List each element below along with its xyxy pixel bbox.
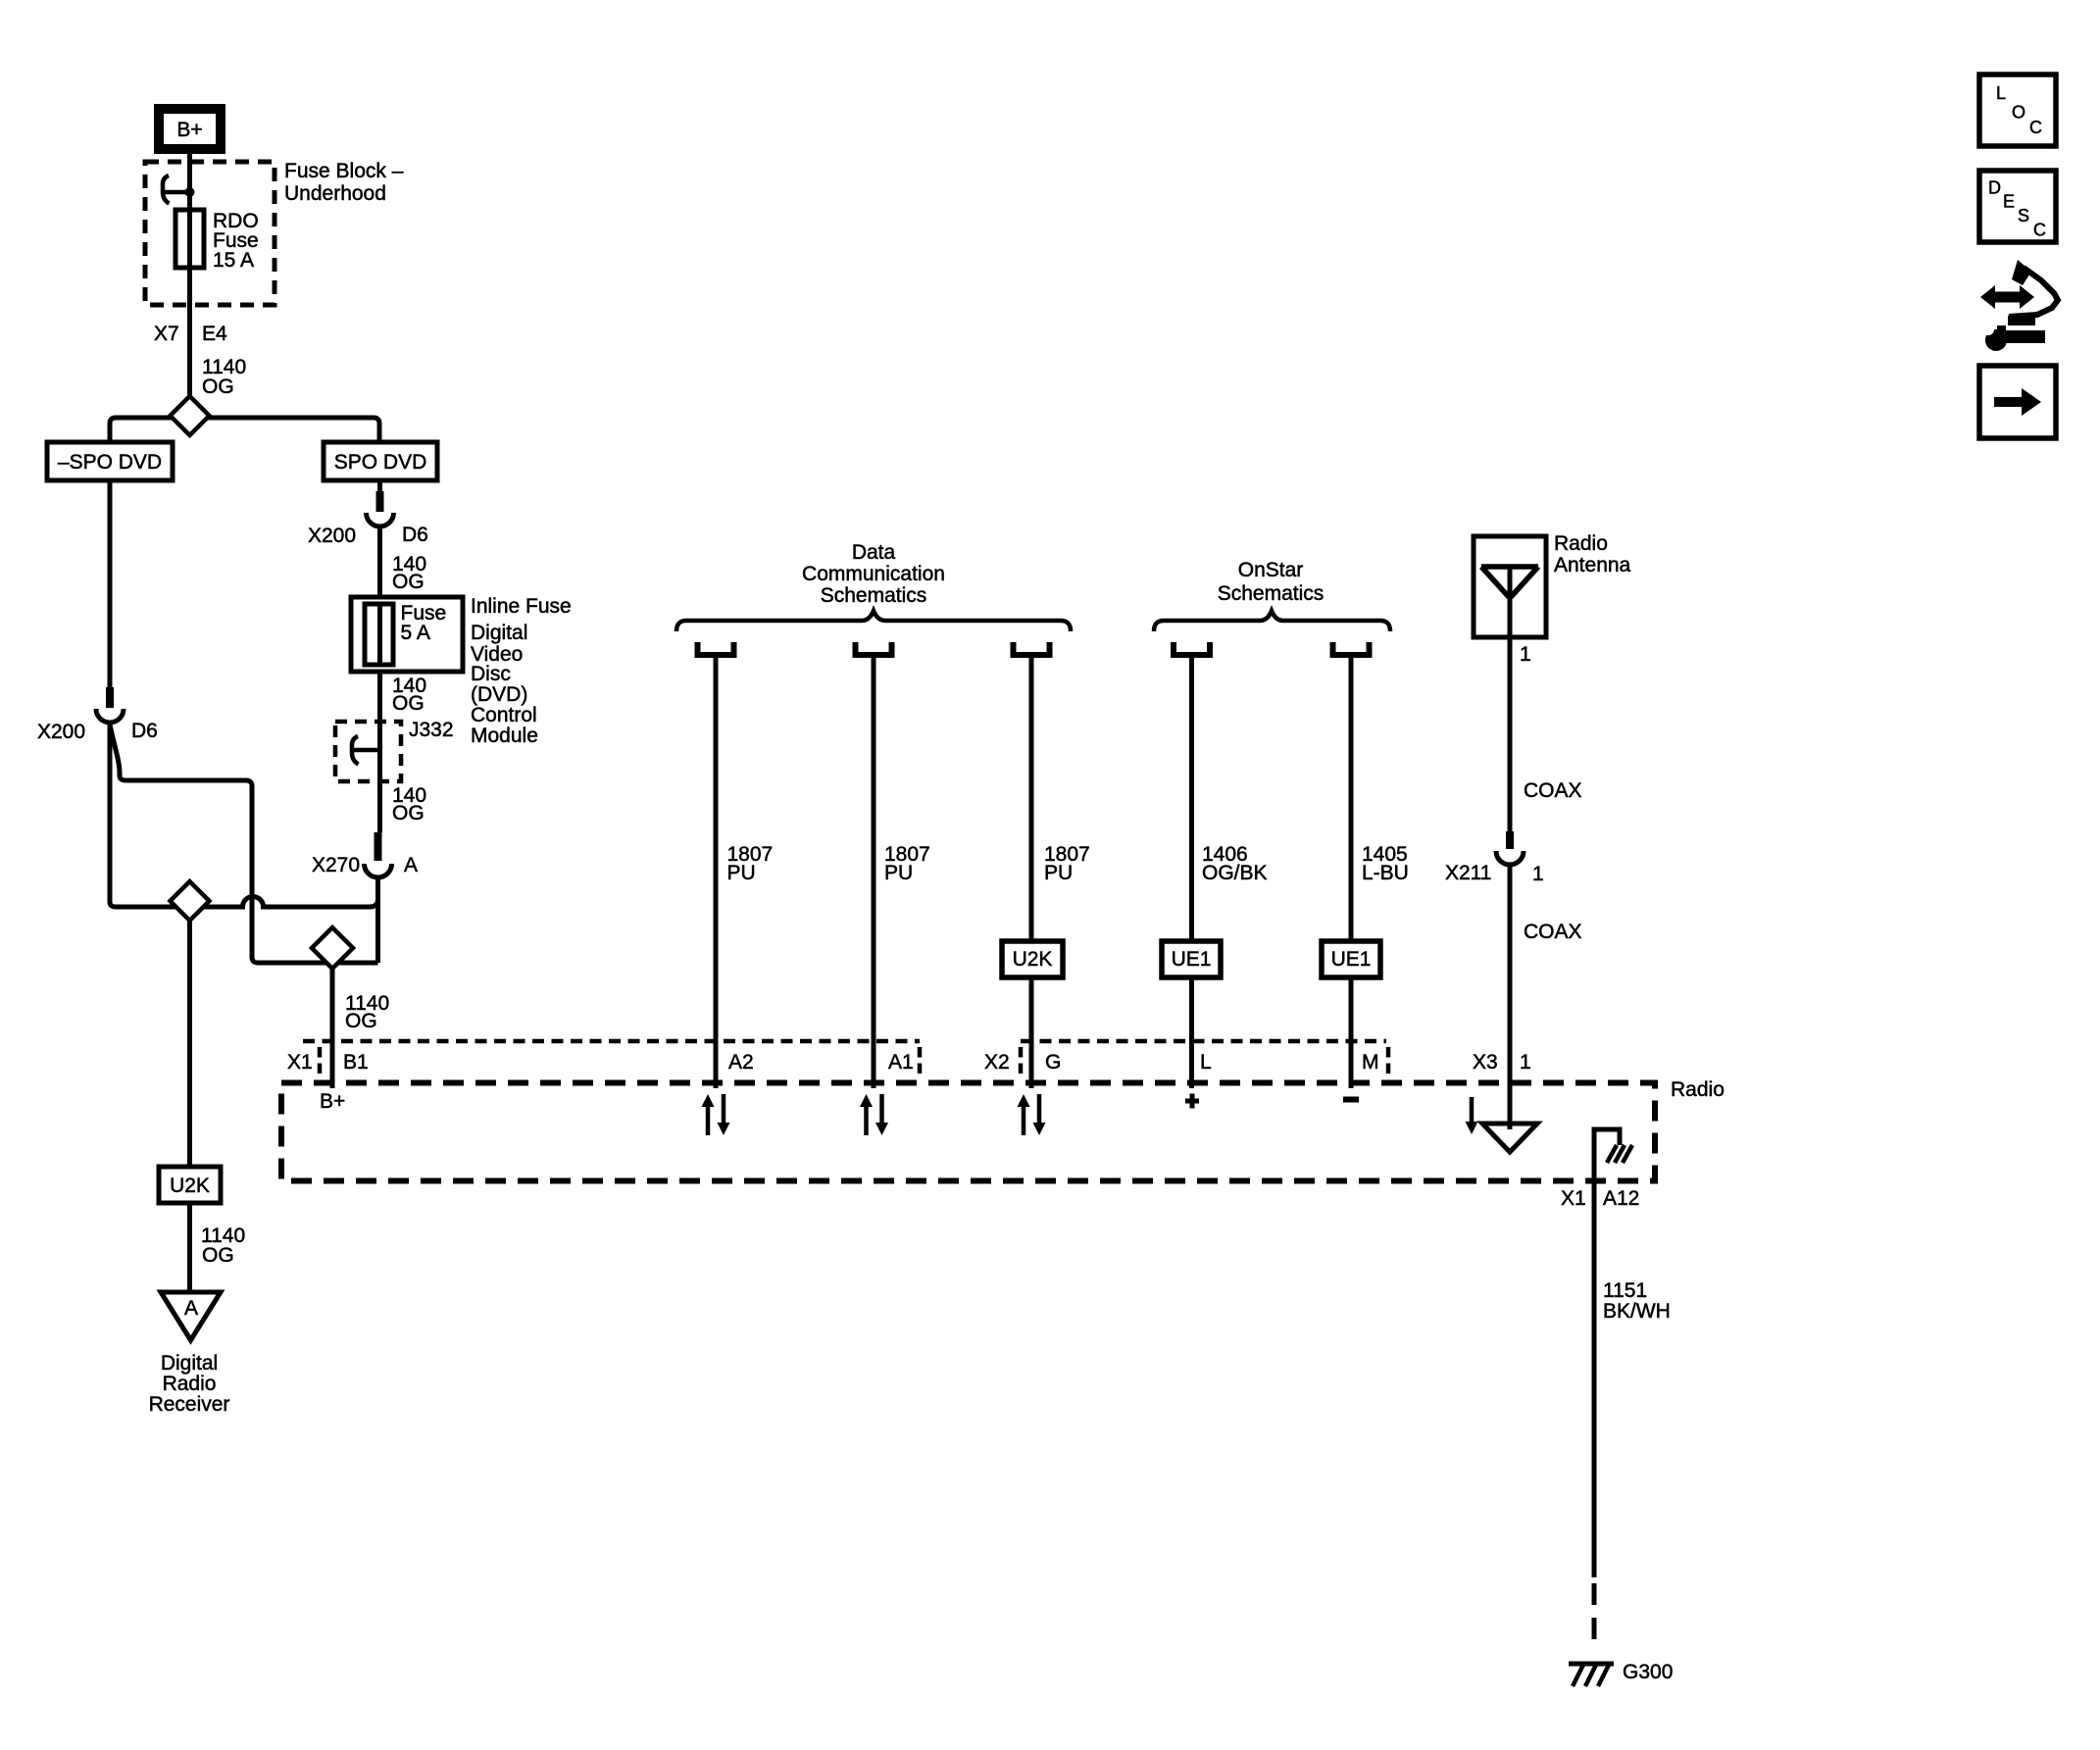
- svg-text:A12: A12: [1603, 1187, 1639, 1210]
- svg-text:OnStar: OnStar: [1238, 559, 1304, 581]
- svg-text:J332: J332: [409, 719, 454, 741]
- svg-text:D6: D6: [131, 720, 158, 742]
- svg-text:X200: X200: [37, 721, 85, 743]
- svg-text:L: L: [1200, 1051, 1212, 1074]
- svg-text:D6: D6: [402, 524, 428, 546]
- svg-text:X1: X1: [287, 1051, 313, 1074]
- svg-text:Digital: Digital: [161, 1352, 218, 1375]
- svg-text:A2: A2: [728, 1051, 754, 1074]
- svg-text:X7: X7: [154, 323, 179, 345]
- svg-text:Data: Data: [852, 541, 896, 564]
- svg-text:Radio: Radio: [1671, 1078, 1725, 1101]
- svg-text:C: C: [2029, 118, 2042, 137]
- svg-text:COAX: COAX: [1524, 779, 1582, 802]
- svg-text:OG: OG: [202, 1244, 234, 1267]
- svg-text:UE1: UE1: [1172, 948, 1212, 971]
- svg-text:Receiver: Receiver: [149, 1393, 230, 1416]
- svg-text:G: G: [1045, 1051, 1061, 1074]
- svg-text:Fuse Block –: Fuse Block –: [284, 160, 404, 182]
- svg-text:15 A: 15 A: [213, 249, 254, 272]
- svg-text:OG: OG: [392, 802, 425, 825]
- svg-text:Radio: Radio: [1554, 532, 1608, 555]
- svg-text:A: A: [184, 1297, 198, 1320]
- svg-text:U2K: U2K: [170, 1175, 210, 1197]
- svg-text:E: E: [2003, 192, 2015, 212]
- svg-text:PU: PU: [1044, 862, 1073, 884]
- svg-text:X211: X211: [1445, 862, 1492, 884]
- svg-text:OG: OG: [345, 1010, 377, 1032]
- svg-text:OG: OG: [392, 571, 425, 593]
- svg-text:B1: B1: [343, 1051, 369, 1074]
- svg-text:OG: OG: [202, 375, 234, 398]
- svg-text:D: D: [1988, 178, 2001, 198]
- svg-text:Inline Fuse: Inline Fuse: [471, 595, 572, 618]
- svg-text:X2: X2: [984, 1051, 1010, 1074]
- svg-text:O: O: [2012, 103, 2025, 123]
- svg-text:SPO DVD: SPO DVD: [334, 451, 427, 474]
- svg-text:Underhood: Underhood: [284, 182, 386, 205]
- svg-text:Disc: Disc: [471, 663, 511, 685]
- svg-text:OG: OG: [392, 692, 425, 715]
- svg-text:E4: E4: [202, 323, 227, 345]
- svg-text:PU: PU: [727, 862, 756, 884]
- svg-text:A1: A1: [888, 1051, 914, 1074]
- svg-text:Control: Control: [471, 704, 537, 726]
- svg-text:X200: X200: [308, 525, 356, 547]
- svg-text:L-BU: L-BU: [1362, 862, 1409, 884]
- svg-text:B+: B+: [176, 119, 202, 141]
- svg-text:U2K: U2K: [1013, 948, 1053, 971]
- svg-text:S: S: [2018, 206, 2029, 225]
- svg-text:Communication: Communication: [802, 563, 945, 585]
- svg-text:(DVD): (DVD): [471, 683, 527, 706]
- svg-text:Radio: Radio: [163, 1373, 217, 1395]
- svg-text:–SPO DVD: –SPO DVD: [58, 451, 162, 474]
- svg-text:BK/WH: BK/WH: [1603, 1300, 1671, 1323]
- svg-text:1151: 1151: [1603, 1279, 1647, 1302]
- svg-text:L: L: [1996, 83, 2006, 103]
- svg-text:Digital: Digital: [471, 622, 527, 644]
- svg-text:Schematics: Schematics: [821, 584, 927, 607]
- svg-text:OG/BK: OG/BK: [1202, 862, 1268, 884]
- svg-text:COAX: COAX: [1524, 921, 1582, 943]
- svg-text:X3: X3: [1473, 1051, 1498, 1074]
- svg-text:PU: PU: [884, 862, 913, 884]
- svg-text:A: A: [404, 854, 418, 876]
- svg-text:C: C: [2033, 221, 2046, 240]
- svg-text:G300: G300: [1623, 1661, 1673, 1683]
- svg-text:Antenna: Antenna: [1554, 554, 1631, 576]
- svg-text:5 A: 5 A: [401, 622, 430, 644]
- svg-text:M: M: [1362, 1051, 1379, 1074]
- svg-text:UE1: UE1: [1331, 948, 1372, 971]
- svg-text:X270: X270: [312, 854, 360, 876]
- svg-text:B+: B+: [320, 1090, 345, 1113]
- svg-text:1: 1: [1520, 643, 1531, 666]
- svg-text:1: 1: [1532, 863, 1544, 885]
- svg-text:X1: X1: [1561, 1187, 1586, 1210]
- svg-text:Schematics: Schematics: [1218, 582, 1325, 605]
- svg-text:1: 1: [1520, 1051, 1531, 1074]
- svg-text:Module: Module: [471, 725, 538, 747]
